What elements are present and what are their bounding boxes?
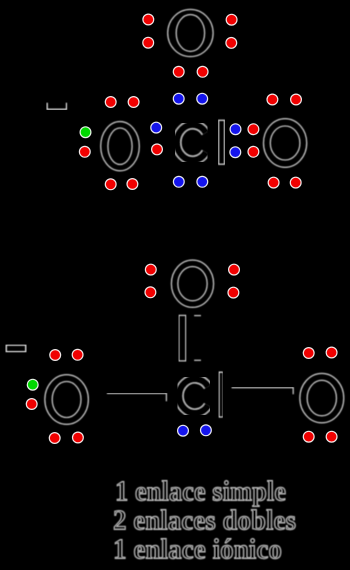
double bond electron pair from O (red row) [173,66,208,77]
svg-text:1 enlace simple: 1 enlace simple [115,477,286,508]
lone pair above right O (red) [303,347,337,358]
chlorine Cl: letter l (top structure) [219,120,225,164]
double bond O=Cl vertical, left bar [179,315,186,361]
ionic electron (green) left of left O [27,379,38,390]
lone pair above right O (red) [267,94,301,105]
electron (red) left of left O [79,146,90,157]
negative charge minus sign (bottom structure) [6,345,25,352]
oxygen O (right atom, bottom structure) [300,373,344,422]
chlorine Cl: letter C (bottom structure) [179,379,208,413]
lone pair below left O (red) [49,432,83,443]
chlorine lone pair below Cl (blue) [173,176,207,187]
lone pair above left O (red) [50,349,83,360]
oxygen O (top atom, bottom structure) [171,260,213,307]
oxygen O (left atom, top structure) [101,122,140,171]
svg-text:2 enlaces dobles: 2 enlaces dobles [113,506,296,537]
lone pair below left O (red) [105,179,137,190]
lone pair dots left of top O (red) [143,14,154,48]
lone pair below right O (red) [303,431,337,442]
lone pair dots right of top O (red) [226,14,237,48]
double bond Cl=O horizontal, upper bar [232,388,294,395]
oxygen O (right atom, top structure) [264,119,307,168]
double bond O=Cl vertical, right bar [194,316,201,361]
chlorine Cl: letter C (top structure) [177,125,206,160]
double bond pair from Cl (blue column, right side) [230,124,241,158]
double bond electron pair from Cl (blue row) [173,93,207,104]
electron (red) left of left O [26,399,37,410]
oxygen O (top atom, top structure) [168,9,213,56]
single bond O-Cl horizontal bar [107,393,166,401]
lone pair right of top O (red) [228,264,239,298]
chlorine lone pair below Cl (blue) [178,425,212,436]
oxygen O (left atom, bottom structure) [45,375,89,425]
lone pair above left O (red) [105,97,139,108]
negative charge minus sign (top structure) [47,103,66,110]
lone pair left of top O (red) [145,264,156,297]
lone pair below right O (red) [268,177,301,188]
double bond Cl=O horizontal, lower bar [292,401,294,408]
single bond pair between left O and Cl (blue above red) [151,122,163,155]
chlorine Cl: letter l (bottom structure) [219,372,223,417]
ionic electron (green) left of left O [80,127,91,138]
svg-text:1 enlace iónico: 1 enlace iónico [113,535,282,566]
double bond pair from right O (red column) [248,124,259,157]
